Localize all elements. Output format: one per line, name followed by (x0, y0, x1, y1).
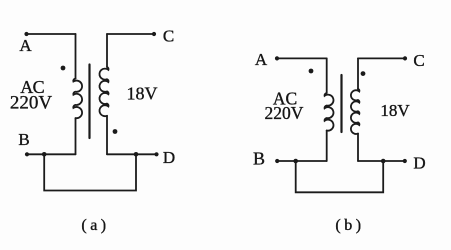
svg-text:A: A (19, 36, 32, 55)
terminal B (b) (275, 159, 279, 163)
wire A top (a) (27, 33, 76, 35)
svg-text:18V: 18V (127, 84, 158, 104)
wire C top (b) (358, 57, 405, 59)
wire primary left vertical (a) (75, 34, 77, 79)
svg-text:C: C (163, 27, 174, 46)
primary winding (b) (325, 93, 334, 131)
wire B bottom-left (a) (27, 153, 76, 155)
primary winding (a) (73, 79, 82, 119)
wire D bottom-right (a) (107, 153, 157, 155)
secondary winding (b) (351, 89, 359, 134)
core (b) (340, 75, 342, 132)
svg-text:A: A (255, 50, 268, 69)
terminal A (b) (275, 56, 279, 60)
svg-text:D: D (413, 154, 425, 173)
terminal A (a) (24, 32, 28, 36)
wire secondary top vertical (b) (357, 58, 359, 88)
wire secondary bottom vertical (b) (357, 134, 359, 161)
wire A top (b) (277, 57, 327, 59)
secondary winding (a) (99, 67, 108, 116)
svg-text:(a): (a) (81, 217, 109, 234)
wire primary bottom vertical (a) (75, 118, 77, 154)
wire bottom link (a) (44, 154, 136, 190)
terminal B (a) (25, 152, 29, 156)
wire C top (a) (107, 33, 154, 35)
terminal D (b) (403, 159, 407, 163)
core (a) (88, 65, 90, 139)
wire secondary bottom vertical (a) (106, 116, 108, 155)
wire primary left vertical (b) (326, 58, 328, 93)
terminal C (a) (152, 32, 156, 36)
svg-text:B: B (253, 149, 265, 169)
wire secondary top vertical (a) (106, 34, 108, 67)
wire bottom link (b) (296, 161, 384, 192)
svg-text:220V: 220V (10, 93, 53, 114)
wire B bottom-left (b) (277, 160, 327, 162)
wire primary bottom vertical (b) (326, 131, 328, 162)
polarity dot secondary (b) (361, 71, 366, 76)
svg-text:B: B (18, 130, 29, 149)
junction near B (b) (293, 159, 298, 164)
svg-text:(b): (b) (335, 217, 364, 234)
polarity dot primary (b) (309, 69, 314, 74)
junction near B (a) (42, 152, 47, 157)
terminal C (b) (403, 56, 407, 60)
junction near D (a) (134, 152, 139, 157)
svg-text:D: D (163, 148, 175, 167)
junction near D (b) (381, 159, 386, 164)
svg-text:C: C (413, 51, 424, 70)
wire D bottom-right (b) (358, 160, 405, 162)
polarity dot secondary (a) (113, 129, 118, 134)
svg-text:220V: 220V (265, 103, 304, 123)
svg-text:18V: 18V (380, 101, 410, 120)
polarity dot primary (a) (61, 66, 66, 71)
terminal D (a) (154, 152, 158, 156)
